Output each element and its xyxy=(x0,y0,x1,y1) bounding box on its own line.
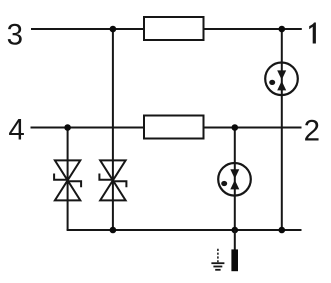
svg-text:4: 4 xyxy=(8,113,24,146)
junction node on ground rail at right vertical xyxy=(279,227,286,234)
ground rail (bottom horizontal) xyxy=(67,229,302,231)
wire: right vertical from node on wire 1 down through GDT to ground rail xyxy=(281,29,283,230)
junction node on ground rail at GDT vertical xyxy=(232,227,239,234)
wire: left vertical from node on wire 4 down to ground rail xyxy=(67,128,69,231)
junction node on wire 3 at second vertical xyxy=(110,26,117,33)
TVS diode D1 (bidirectional suppressor) xyxy=(54,160,81,200)
wire 3 to 1 (top horizontal) xyxy=(31,28,302,30)
svg-text:3: 3 xyxy=(7,18,23,51)
wire: ground tap below rail xyxy=(234,230,236,250)
svg-text:2: 2 xyxy=(304,114,320,147)
wire: vertical from node on wire 2 down through GDT to ground rail xyxy=(234,128,236,231)
junction node on wire 1 at right vertical xyxy=(279,26,286,33)
resistor R1 xyxy=(144,17,204,40)
junction node on wire 4 at left vertical xyxy=(64,124,71,131)
ground terminal bar xyxy=(231,249,238,271)
gas discharge tube F2 (circle on wire-2 vertical) xyxy=(218,163,251,196)
junction node on ground rail at second vertical xyxy=(110,227,117,234)
junction node on wire 2 at GDT vertical xyxy=(232,124,239,131)
TVS diode D2 (bidirectional suppressor) xyxy=(99,160,126,200)
wire: second vertical from node on wire 3 down to ground rail xyxy=(112,29,114,230)
gas discharge tube F1 (circle on right vertical) xyxy=(265,63,298,96)
wire 4 to 2 (middle horizontal) xyxy=(31,127,302,129)
earth ground symbol xyxy=(211,249,224,270)
resistor R2 xyxy=(144,116,204,139)
terminal label 1 xyxy=(309,23,316,44)
